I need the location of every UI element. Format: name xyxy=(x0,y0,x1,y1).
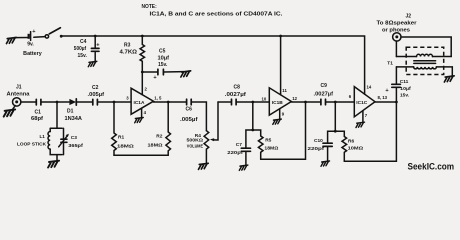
wire C5 to ground xyxy=(164,71,184,73)
svg-text:C7: C7 xyxy=(236,142,242,148)
wire J2 top xyxy=(401,37,451,57)
capacitor C1 xyxy=(36,99,41,105)
svg-text:D1: D1 xyxy=(67,108,74,114)
node R5 output junction xyxy=(304,101,307,104)
capacitor C5 xyxy=(153,69,163,81)
svg-text:C2: C2 xyxy=(92,85,99,91)
svg-text:R3: R3 xyxy=(124,43,131,49)
capacitor C4 xyxy=(91,36,100,61)
node output/C11 junction xyxy=(395,101,398,104)
svg-text:C10: C10 xyxy=(314,138,323,144)
svg-text:VOLUME: VOLUME xyxy=(187,144,203,149)
wire R5 feedback loop xyxy=(261,102,306,159)
wire C10 riser xyxy=(328,102,336,143)
ground (R4) xyxy=(198,163,208,169)
svg-text:IC1A: IC1A xyxy=(134,100,145,106)
svg-text:4.7KΩ: 4.7KΩ xyxy=(120,49,138,55)
wire C9 to IC1C pin6 xyxy=(326,101,355,103)
svg-text:1N34A: 1N34A xyxy=(65,116,83,122)
svg-text:10µf: 10µf xyxy=(400,86,411,92)
svg-text:or phones: or phones xyxy=(382,27,410,33)
capacitor C8 xyxy=(232,99,237,105)
svg-text:R1: R1 xyxy=(118,135,124,141)
wire ground to battery xyxy=(15,37,29,39)
svg-text:C9: C9 xyxy=(321,83,328,89)
svg-text:15v.: 15v. xyxy=(158,62,168,68)
svg-text:1, 5: 1, 5 xyxy=(154,95,162,100)
svg-text:15v.: 15v. xyxy=(78,53,88,59)
op-amp IC1A xyxy=(131,88,153,114)
potentiometer R4 500K volume xyxy=(204,102,218,163)
svg-text:18MΩ: 18MΩ xyxy=(264,146,278,152)
svg-text:C1: C1 xyxy=(35,109,42,115)
ground (C10) xyxy=(321,161,330,166)
op-amp IC1C xyxy=(354,87,375,117)
svg-text:10MΩ: 10MΩ xyxy=(348,146,364,152)
svg-text:12: 12 xyxy=(292,96,297,101)
wire R6 feedback loop xyxy=(344,102,396,161)
svg-text:.005µf: .005µf xyxy=(88,92,105,98)
node C7/R5 xyxy=(251,129,254,132)
ground (IC1A pin4) xyxy=(135,118,144,123)
node C4 rail junction xyxy=(94,35,97,38)
resistor R3 4.7K xyxy=(140,36,144,72)
svg-text:NOTE:: NOTE: xyxy=(142,4,157,10)
wire tank riser xyxy=(56,102,58,128)
svg-text:11: 11 xyxy=(282,88,287,93)
ground (IC1B pin9) xyxy=(273,119,282,124)
svg-text:18MΩ: 18MΩ xyxy=(117,144,134,150)
pin 11 wire xyxy=(280,36,282,95)
switch S1 xyxy=(45,28,62,38)
capacitor C10 220pf xyxy=(323,143,332,161)
capacitor C6 xyxy=(187,99,192,105)
wire top supply rail xyxy=(95,36,364,94)
svg-text:.0027µf: .0027µf xyxy=(314,91,334,97)
svg-text:J1: J1 xyxy=(16,85,22,91)
svg-text:.0027µf: .0027µf xyxy=(225,92,246,98)
wire IC1B output xyxy=(291,101,320,103)
ground (J1) xyxy=(4,109,15,116)
wire C2 to IC1A pin3 xyxy=(98,101,131,103)
svg-text:Antenna: Antenna xyxy=(7,92,30,98)
wire diode to C2 xyxy=(77,101,93,103)
wire node to diode xyxy=(57,101,69,103)
svg-text:IC1A, B and C are sections of: IC1A, B and C are sections of CD4007A IC… xyxy=(150,12,284,18)
resistor R6 10M xyxy=(335,131,346,161)
pin 7 wire xyxy=(362,111,364,122)
wire wiper to C8 xyxy=(218,101,231,103)
svg-text:18MΩ: 18MΩ xyxy=(148,142,163,148)
node C10/R6 xyxy=(334,130,337,133)
capacitor C3 variable xyxy=(59,128,69,154)
svg-text:C8: C8 xyxy=(234,85,241,91)
svg-text:10: 10 xyxy=(262,97,267,102)
jack J2 xyxy=(393,33,401,41)
wire IC1A output xyxy=(154,101,187,103)
wire J1 to C1 xyxy=(21,101,36,103)
wire J2 riser xyxy=(395,41,397,57)
svg-text:C4: C4 xyxy=(80,39,87,45)
svg-text:220pf: 220pf xyxy=(227,150,243,156)
svg-text:9v.: 9v. xyxy=(27,41,34,47)
wire tank to ground xyxy=(56,155,58,161)
capacitor C11 xyxy=(385,67,400,102)
node R3/C5/pin2 xyxy=(141,71,144,74)
ground (C4) xyxy=(88,61,97,66)
T1 shield dashed box xyxy=(406,47,444,74)
svg-text:IC1B: IC1B xyxy=(272,100,283,106)
node R2 junction xyxy=(167,101,170,104)
ground (battery negative) xyxy=(6,37,16,43)
node R3 rail junction xyxy=(141,35,144,38)
svg-text:SeekIC.com: SeekIC.com xyxy=(408,161,455,172)
wire battery to switch xyxy=(34,36,45,39)
inductor L1 loopstick xyxy=(48,128,62,154)
svg-text:15v.: 15v. xyxy=(400,93,409,99)
pin 9 wire xyxy=(279,109,281,119)
svg-text:C11: C11 xyxy=(400,79,409,85)
svg-text:14: 14 xyxy=(367,84,372,89)
svg-text:J2: J2 xyxy=(406,13,412,19)
node R1 junction xyxy=(113,101,116,104)
wire IC1C output xyxy=(375,101,396,103)
svg-text:.005µf: .005µf xyxy=(180,117,198,123)
svg-text:C3: C3 xyxy=(71,135,77,141)
wire C5 node to IC1A pin2 xyxy=(141,72,143,95)
svg-text:C5: C5 xyxy=(159,49,166,55)
resistor R5 18M xyxy=(253,130,263,159)
wire node to C5 xyxy=(142,71,157,73)
svg-text:10µf: 10µf xyxy=(158,56,170,62)
transformer T1 primary xyxy=(396,67,452,76)
wire C6 to R4 xyxy=(192,102,207,131)
wire C8 to IC1B pin10 xyxy=(236,101,269,103)
node L1 tank xyxy=(56,101,59,104)
svg-text:500µf: 500µf xyxy=(74,46,87,52)
capacitor C2 xyxy=(93,99,98,105)
op-amp IC1B xyxy=(269,88,291,115)
svg-text:LOOP STICK: LOOP STICK xyxy=(17,142,46,147)
svg-text:R5: R5 xyxy=(265,138,271,144)
ground (L1/C3) xyxy=(48,161,59,168)
svg-text:T1: T1 xyxy=(387,61,393,67)
wire C7 riser xyxy=(252,102,254,130)
wire R1-R2 bottom xyxy=(114,154,168,156)
capacitor C9 xyxy=(321,99,326,105)
svg-text:Battery: Battery xyxy=(23,51,42,57)
ground (C7) xyxy=(239,165,248,170)
ground (C5) xyxy=(181,71,191,77)
svg-text:C6: C6 xyxy=(186,107,193,113)
jack J1 antenna xyxy=(13,98,21,110)
svg-text:IC1C: IC1C xyxy=(356,100,367,106)
battery B1 9v xyxy=(29,29,37,41)
wire C1 to node xyxy=(41,101,57,103)
svg-text:To 8Ωspeaker: To 8Ωspeaker xyxy=(377,21,417,27)
transformer T1 secondary xyxy=(396,54,451,56)
ground (IC1C pin7) xyxy=(356,122,365,127)
pin 4 wire and ground xyxy=(141,108,143,117)
ground (T1) xyxy=(444,76,454,82)
svg-text:220pf: 220pf xyxy=(308,146,325,152)
diode D1 1N34A xyxy=(69,99,76,105)
capacitor C7 220pf xyxy=(241,130,253,165)
svg-text:68pf: 68pf xyxy=(31,116,43,122)
svg-text:L1: L1 xyxy=(40,134,46,139)
wire switch to rail xyxy=(61,35,95,37)
transformer T1 core xyxy=(414,61,436,64)
svg-text:8, 13: 8, 13 xyxy=(378,95,388,100)
svg-text:R6: R6 xyxy=(348,138,354,144)
node C7 junction xyxy=(251,101,254,104)
node C10 junction xyxy=(334,101,337,104)
svg-text:365pf: 365pf xyxy=(68,143,83,149)
svg-text:R2: R2 xyxy=(156,133,162,139)
node pin11 rail junction xyxy=(279,35,282,38)
resistor R2 18M xyxy=(166,102,171,155)
resistor R1 18M xyxy=(112,102,117,155)
